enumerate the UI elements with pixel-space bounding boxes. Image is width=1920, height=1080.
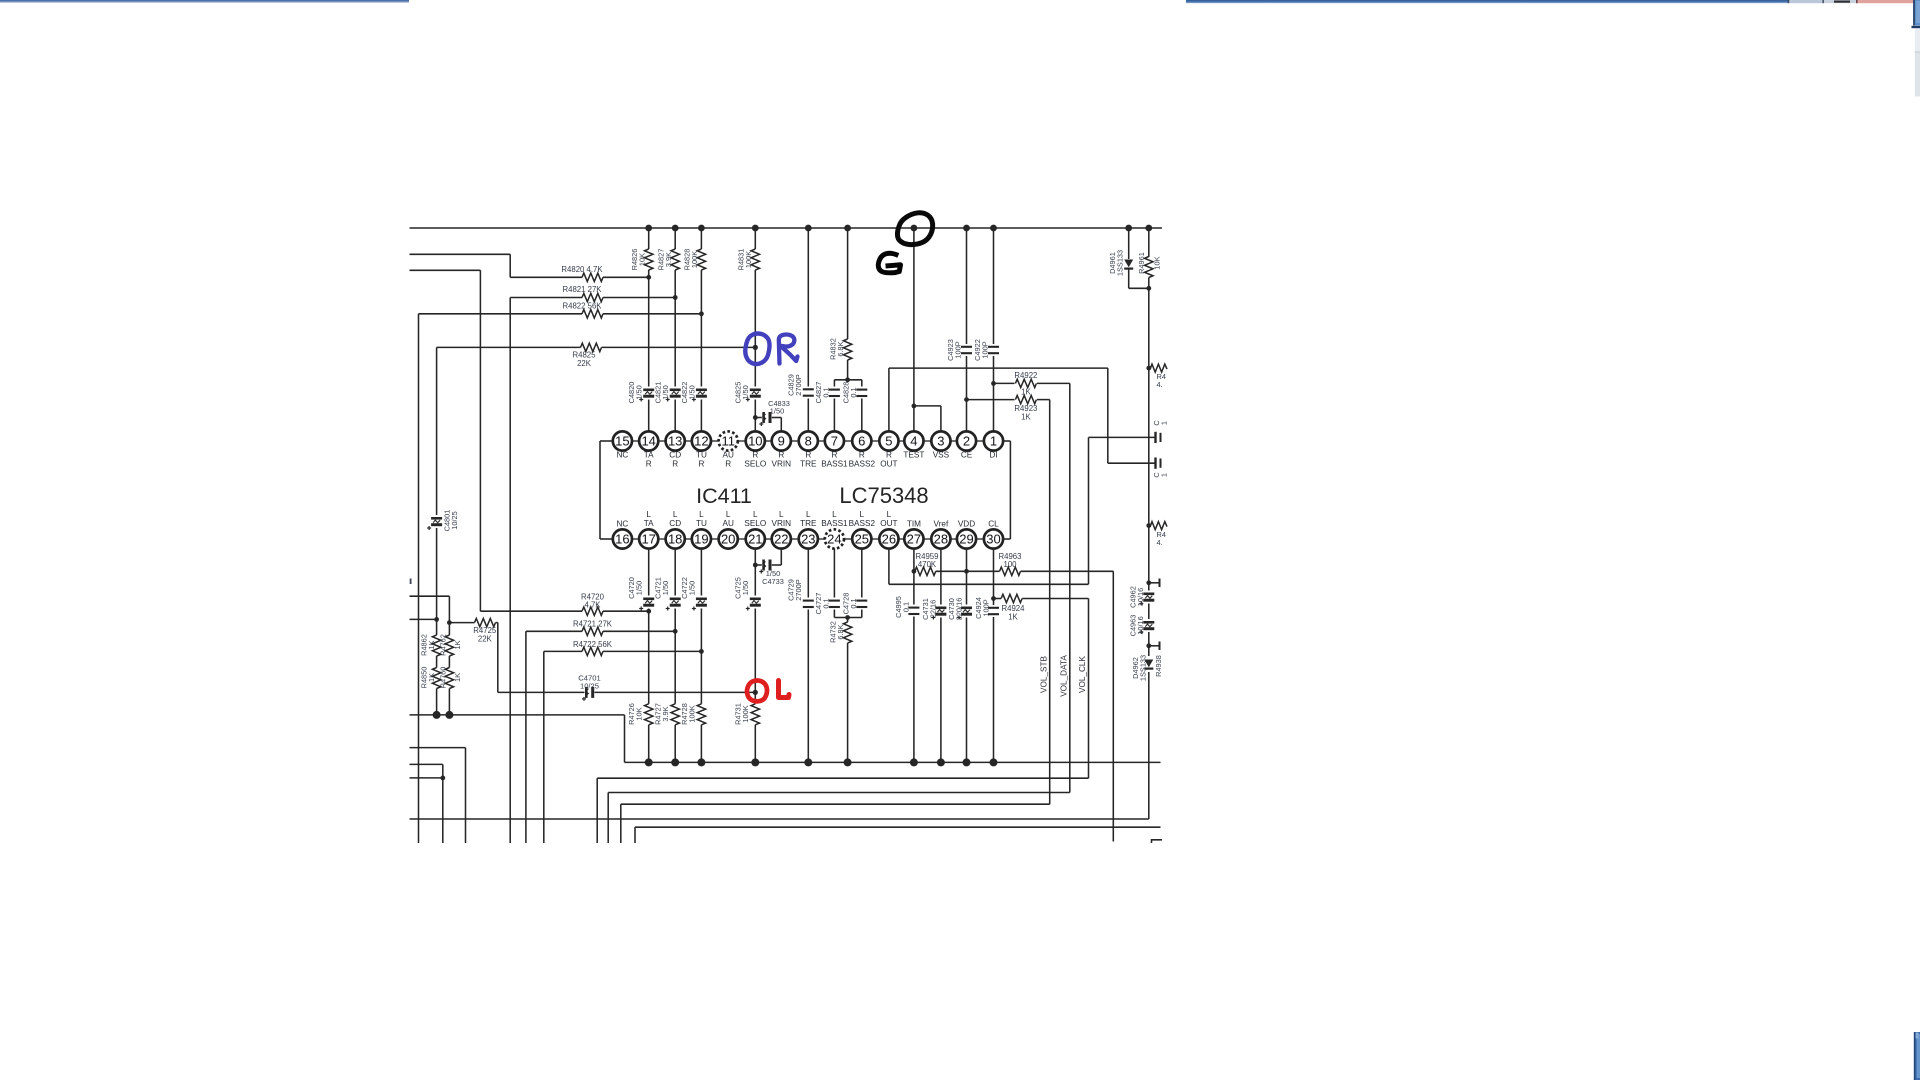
wire R OUT pin 5 to right edge capacitor <box>888 368 890 431</box>
svg-text:1K: 1K <box>427 640 436 649</box>
node junction R4820/C4820 line <box>646 275 651 280</box>
svg-text:10/25: 10/25 <box>450 511 459 530</box>
svg-text:6.8K: 6.8K <box>836 624 845 639</box>
svg-text:TEST: TEST <box>903 451 924 460</box>
svg-text:100: 100 <box>1003 560 1017 569</box>
svg-text:29: 29 <box>959 532 973 547</box>
svg-text:BASS1: BASS1 <box>821 519 848 528</box>
svg-text:Vref: Vref <box>934 520 949 529</box>
pin 30 CL <box>984 529 1003 548</box>
node junction ground bus x437 <box>433 711 441 719</box>
svg-text:R: R <box>725 460 731 469</box>
svg-text:DI: DI <box>989 451 997 460</box>
svg-text:1: 1 <box>1160 473 1169 477</box>
wire left input to R4720 column <box>410 269 481 271</box>
pin 28 Vref <box>931 529 950 548</box>
svg-text:CE: CE <box>961 451 973 460</box>
node junction ground bus x966 <box>963 758 971 766</box>
svg-text:R4762: R4762 <box>439 634 448 656</box>
svg-text:17: 17 <box>641 532 655 547</box>
capacitor C4822 1/50 <box>696 387 707 400</box>
node junction top bus x993 <box>990 225 997 232</box>
pin 12 TU R <box>692 431 711 450</box>
svg-text:2700P: 2700P <box>794 374 803 395</box>
svg-text:10/16: 10/16 <box>1136 588 1145 607</box>
window button maximize <box>1824 0 1857 3</box>
wire VOL_CLK drop <box>1088 599 1090 779</box>
svg-text:4.: 4. <box>1157 538 1163 547</box>
wire VOL_DATA staircase <box>607 793 609 844</box>
svg-text:VRIN: VRIN <box>772 519 792 528</box>
wire pin row connector top <box>632 440 639 442</box>
pin 21 L SELO <box>746 529 765 548</box>
svg-text:4.: 4. <box>1157 380 1163 389</box>
svg-text:3: 3 <box>937 434 944 449</box>
svg-text:VOL_CLK: VOL_CLK <box>1078 656 1087 693</box>
svg-text:1K: 1K <box>427 673 436 682</box>
pin 3 VSS <box>931 431 950 450</box>
node junction right rail C4962 tap <box>1146 580 1151 585</box>
pin 18 L CD <box>666 529 685 548</box>
svg-text:19: 19 <box>694 532 708 547</box>
svg-text:14: 14 <box>641 434 655 449</box>
pin 27 TIM <box>904 529 923 548</box>
svg-text:100P: 100P <box>981 341 990 358</box>
wire ground bus main segment <box>625 761 1161 763</box>
svg-text:R: R <box>805 451 811 460</box>
pin 10 R SELO <box>746 431 765 450</box>
capacitor C4924 100P <box>988 605 999 617</box>
svg-text:470K: 470K <box>918 560 937 569</box>
node junction top bus x755 <box>752 225 759 232</box>
node junction C4833 tap <box>753 415 758 420</box>
svg-text:R4961: R4961 <box>1137 252 1146 274</box>
node junction ground bus x808 <box>804 758 812 766</box>
diode D4961 1SS133 <box>1128 228 1130 259</box>
resistor R4850 1K <box>432 668 442 689</box>
node junction top bus x848 <box>844 225 851 232</box>
node junction right rail D4962 tap <box>1146 643 1151 648</box>
pin 16 NC <box>613 529 632 548</box>
svg-text:R: R <box>646 460 652 469</box>
wire IC package left side <box>600 440 613 442</box>
wire left input x443 tap <box>410 777 443 779</box>
svg-text:23: 23 <box>801 532 815 547</box>
wire VOL_CLK staircase <box>596 778 598 843</box>
svg-text:22K: 22K <box>577 359 592 368</box>
svg-text:1/50: 1/50 <box>661 581 670 595</box>
node junction ground bus x449 <box>445 711 453 719</box>
wire R4762 column <box>448 623 450 715</box>
svg-text:24: 24 <box>827 532 841 547</box>
wire bus to R4832 <box>847 228 849 380</box>
svg-text:L: L <box>699 510 704 519</box>
node junction R4720 tap <box>646 609 651 614</box>
svg-text:R: R <box>672 460 678 469</box>
svg-text:13: 13 <box>668 434 682 449</box>
resistor R4727 3.9K <box>670 704 680 725</box>
svg-text:TRE: TRE <box>800 519 817 528</box>
svg-text:TU: TU <box>696 519 707 528</box>
node junction ground bus x755 <box>751 758 759 766</box>
capacitor C4833 1/50 <box>755 417 762 419</box>
resistor R4760 1K <box>444 668 454 689</box>
node junction R4732/C4727/C4728 <box>845 615 850 620</box>
svg-text:L: L <box>832 510 837 519</box>
wire pin 23 column via C4729 <box>807 549 809 763</box>
svg-text:26: 26 <box>882 532 896 547</box>
pin 15 NC <box>613 431 632 450</box>
svg-text:10K: 10K <box>635 707 644 720</box>
node junction top bus x966 <box>963 225 970 232</box>
pin 13 CD R <box>666 431 685 450</box>
wire R4963 drop <box>1112 571 1114 841</box>
annotation black letter G <box>878 253 900 273</box>
node junction top bus x914 (circled) <box>911 225 918 232</box>
wire feed line x510 lower segment <box>509 298 511 844</box>
pin 14 TA R <box>639 431 658 450</box>
wire pin 21 SELO L column down <box>754 549 756 763</box>
capacitor C4827 0.1 <box>833 380 835 432</box>
annotation blue letter R <box>779 334 798 363</box>
wire C4801/R4862 column <box>436 347 438 715</box>
resistor R4762 1K <box>444 635 454 656</box>
svg-text:10K: 10K <box>1153 256 1162 269</box>
svg-text:1K: 1K <box>1008 613 1018 622</box>
node OR junction on SELO R line <box>753 345 758 350</box>
svg-text:IC411: IC411 <box>696 484 752 508</box>
svg-text:22: 22 <box>774 532 788 547</box>
wire ground bus left segment <box>410 714 625 716</box>
svg-text:6.8K: 6.8K <box>836 341 845 356</box>
capacitor C4828 0.1 <box>861 380 863 432</box>
svg-text:BASS1: BASS1 <box>821 460 848 469</box>
wire VOL_STB drop <box>1049 400 1051 805</box>
node junction CL/R4924 <box>991 596 996 601</box>
svg-text:TA: TA <box>644 451 654 460</box>
svg-text:5: 5 <box>885 434 892 449</box>
svg-text:TRE: TRE <box>800 460 817 469</box>
svg-text:10K: 10K <box>638 253 647 266</box>
node junction TEST to VSS <box>912 404 917 409</box>
svg-text:0.1: 0.1 <box>822 598 831 608</box>
node junction top bus x1129 <box>1125 225 1132 232</box>
capacitor C4727 0.1 <box>833 549 835 618</box>
pin 26 L OUT <box>879 529 898 548</box>
svg-text:4.7K: 4.7K <box>584 601 601 610</box>
svg-text:22/16: 22/16 <box>929 600 938 619</box>
wire bus to pin 1 DI via C4922 <box>993 228 995 432</box>
node junction x443 tap <box>440 776 445 781</box>
pin 1 DI <box>984 431 1003 450</box>
svg-text:AU: AU <box>723 519 734 528</box>
resistor R4726 10K <box>644 704 654 725</box>
label fragment left edge <box>410 579 412 585</box>
svg-text:15: 15 <box>615 434 629 449</box>
wire VOL_DATA drop <box>1069 383 1071 792</box>
svg-text:R4721 27K: R4721 27K <box>573 620 613 629</box>
pin 7 R BASS1 <box>825 431 844 450</box>
node junction ground bus x940 <box>937 758 945 766</box>
node junction top bus x649 <box>645 225 652 232</box>
svg-text:R4822 56K: R4822 56K <box>562 302 602 311</box>
capacitor C4701 10/25 <box>498 691 585 693</box>
wire pin 17 column down to bus <box>648 549 650 763</box>
node junction R4821/C4821 line <box>673 295 678 300</box>
pin 11 AU R <box>719 431 738 450</box>
svg-text:1SS133: 1SS133 <box>1139 655 1148 681</box>
wire feed x544 down <box>543 651 545 843</box>
resistor R4828 100K <box>696 249 706 270</box>
svg-text:R4821 27K: R4821 27K <box>562 285 602 294</box>
capacitor C4720 1/50 <box>643 596 654 609</box>
node junction R4832/C4827/C4828 <box>845 377 850 382</box>
svg-text:R: R <box>752 451 758 460</box>
resistor R4728 100K <box>696 704 706 725</box>
wire bottom right corner tick <box>1152 840 1163 843</box>
pin 22 L VRIN <box>772 529 791 548</box>
wire bus to pin 8 via C4829 <box>807 228 809 432</box>
svg-text:VSS: VSS <box>933 451 950 460</box>
resistor R4821 27K <box>510 297 582 299</box>
node junction ground bus x913 <box>910 758 918 766</box>
svg-text:OUT: OUT <box>880 460 897 469</box>
capacitor C4731 22/16 <box>935 605 946 618</box>
svg-text:0.1: 0.1 <box>902 602 911 612</box>
svg-text:1: 1 <box>990 434 997 449</box>
svg-text:27: 27 <box>907 532 921 547</box>
svg-text:NC: NC <box>616 520 628 529</box>
capacitor C4829 2700P <box>803 387 814 399</box>
svg-text:100K: 100K <box>741 705 750 722</box>
node junction TIM/R4959 <box>912 569 917 574</box>
svg-text:OUT: OUT <box>880 519 897 528</box>
node junction right rail R 4.7K upper <box>1146 366 1151 371</box>
svg-text:L: L <box>726 510 731 519</box>
capacitor C4821 1/50 <box>670 387 681 400</box>
wire pin 29 VDD column <box>966 549 968 763</box>
wire bus to pin 14 via C4820 <box>648 228 650 432</box>
scrollbar top button right edge <box>1915 0 1920 26</box>
resistor R4832 6.8K <box>843 339 853 360</box>
resistor R4720 4.7K <box>479 610 481 612</box>
resistor R4722 56K <box>544 650 582 652</box>
capacitor C4728 0.1 <box>861 549 863 618</box>
node junction right rail R 4.7K lower <box>1146 523 1151 528</box>
svg-text:4: 4 <box>910 434 917 449</box>
svg-text:100K: 100K <box>744 251 753 268</box>
svg-text:10: 10 <box>748 434 762 449</box>
window button close <box>1858 0 1918 3</box>
pin 8 R TRE <box>799 431 818 450</box>
svg-text:CL: CL <box>988 520 999 529</box>
svg-text:2: 2 <box>963 434 970 449</box>
svg-text:3.9K: 3.9K <box>664 252 673 267</box>
svg-text:TIM: TIM <box>907 520 921 529</box>
node junction R4722 tap <box>699 649 704 654</box>
wire C4827/C4828 tie bar <box>834 379 861 381</box>
wire IC package right side <box>1003 440 1011 442</box>
resistor R4831 100K <box>750 249 760 270</box>
capacitor C4722 1/50 <box>696 596 707 609</box>
wire feed line x418 <box>418 314 420 843</box>
capacitor C4725 1/50 <box>750 596 761 609</box>
svg-text:C4733: C4733 <box>762 577 784 586</box>
capacitor C4721 1/50 <box>670 596 681 609</box>
wire pin row connector bottom <box>632 538 639 540</box>
svg-text:NC: NC <box>616 451 628 460</box>
browser toolbar fragment top-right <box>1186 0 1788 3</box>
node junction C4801 line <box>434 617 439 622</box>
wire R4725 to C4701 <box>497 623 499 693</box>
capacitor C4995 0.1 <box>908 605 919 617</box>
node junction top bus x675 <box>672 225 679 232</box>
svg-text:LC75348: LC75348 <box>839 483 928 508</box>
resistor R4825 22K <box>437 346 581 348</box>
svg-text:L: L <box>779 510 784 519</box>
annotation red letter L <box>779 681 790 698</box>
scrollbar bottom button right edge <box>1915 1032 1920 1080</box>
svg-text:1K: 1K <box>453 640 462 649</box>
resistor R4923 1K <box>967 399 1015 401</box>
wire left input to R4725 jog <box>410 595 450 597</box>
wire C4833 to pin 9 <box>780 418 782 432</box>
svg-text:R4722 56K: R4722 56K <box>573 640 613 649</box>
annotation black circle around supply node <box>897 213 932 245</box>
capacitor C4801 10/25 <box>431 515 442 528</box>
window button minimize <box>1790 0 1823 3</box>
wire bus to pin 13 via C4821 <box>674 228 676 432</box>
svg-text:10/25: 10/25 <box>580 682 599 691</box>
wire pin 27 TIM column <box>913 549 915 763</box>
capacitor C4820 1/50 <box>643 387 654 400</box>
svg-text:L: L <box>753 510 758 519</box>
resistor R4721 27K <box>526 630 582 632</box>
wire lowest staircase to right edge <box>634 827 636 843</box>
pin 6 R BASS2 <box>852 431 871 450</box>
svg-text:1K: 1K <box>453 673 462 682</box>
svg-text:TA: TA <box>644 519 654 528</box>
node junction DI/R4922 <box>991 381 996 386</box>
svg-text:L: L <box>887 510 892 519</box>
svg-text:CD: CD <box>669 451 681 460</box>
capacitor C4962 10/16 <box>1143 591 1154 604</box>
svg-text:R4820 4.7K: R4820 4.7K <box>561 265 603 274</box>
svg-text:L: L <box>673 510 678 519</box>
wire VOL_STB staircase <box>620 804 622 843</box>
capacitor C4733 1/50 <box>753 563 758 568</box>
wire feed x526 down <box>525 631 527 843</box>
node junction ground bus x648 <box>645 758 653 766</box>
resistor R49xx 4.7K cut upper <box>1151 364 1167 372</box>
node junction ground bus x847 <box>844 758 852 766</box>
node junction D4961/R4961 <box>1146 286 1151 291</box>
svg-text:BASS2: BASS2 <box>849 519 876 528</box>
svg-text:R: R <box>778 451 784 460</box>
svg-text:25: 25 <box>855 532 869 547</box>
svg-text:11: 11 <box>721 434 735 449</box>
svg-text:0.1: 0.1 <box>822 387 831 397</box>
svg-text:TU: TU <box>696 451 707 460</box>
svg-text:1/50: 1/50 <box>635 581 644 595</box>
node junction CE/R4923 <box>964 397 969 402</box>
svg-text:R: R <box>698 460 704 469</box>
svg-text:20: 20 <box>721 532 735 547</box>
svg-text:R: R <box>886 451 892 460</box>
pin 24 L BASS1 <box>825 529 844 548</box>
svg-text:L: L <box>646 510 651 519</box>
pin 9 R VRIN <box>772 431 791 450</box>
pin 20 L AU <box>719 529 738 548</box>
annotation red O circling SELO L node <box>747 681 767 702</box>
wire TEST to VSS pin 3 <box>914 405 941 407</box>
svg-text:BASS2: BASS2 <box>849 460 876 469</box>
svg-text:1/50: 1/50 <box>741 385 750 399</box>
svg-text:1K: 1K <box>1021 413 1031 422</box>
svg-text:1K: 1K <box>1021 388 1031 397</box>
wire pin 19 column down to bus <box>700 549 702 763</box>
wire pin 30 CL column <box>993 549 995 763</box>
pin 4 TEST <box>904 431 923 450</box>
svg-text:L: L <box>860 510 865 519</box>
svg-text:12: 12 <box>694 434 708 449</box>
svg-text:220/16: 220/16 <box>955 598 964 621</box>
wire pin 28 Vref column <box>940 549 942 763</box>
wire TEST pin 4 riser <box>913 228 915 432</box>
wire C4727/C4728 tie bar <box>834 617 861 619</box>
scrollbar track right edge <box>1915 29 1920 53</box>
capacitor C4923 100P <box>961 344 972 356</box>
pin 5 R OUT <box>879 431 898 450</box>
capacitor C4730 220/16 <box>961 605 972 618</box>
svg-text:R4938: R4938 <box>1154 655 1163 677</box>
resistor R4725 22K <box>449 622 474 624</box>
svg-text:21: 21 <box>748 532 762 547</box>
svg-text:SELO: SELO <box>744 519 766 528</box>
wire bus to pin 10 via R4831 and C4825 <box>754 228 756 432</box>
svg-text:30: 30 <box>986 532 1000 547</box>
capacitor C4729 2700P <box>803 598 814 610</box>
capacitor C4825 1/50 <box>750 387 761 400</box>
capacitor C4963 10/16 <box>1143 619 1154 632</box>
svg-text:6: 6 <box>858 434 865 449</box>
svg-text:18: 18 <box>668 532 682 547</box>
annotation blue O circling SELO R node <box>745 334 769 364</box>
svg-text:100P: 100P <box>954 341 963 358</box>
wire long bottom bus to right rail <box>410 818 1149 820</box>
resistor R4826 10K <box>644 249 654 270</box>
node junction ground bus x701 <box>697 758 705 766</box>
node junction top bus x1149 <box>1145 225 1152 232</box>
pin 23 L TRE <box>799 529 818 548</box>
capacitor C4922 100P <box>988 344 999 356</box>
resistor R4827 3.9K <box>670 249 680 270</box>
node junction R4725/R4762 line <box>447 620 452 625</box>
wire bus to pin 2 CE via C4923 <box>966 228 968 432</box>
resistor R49xx 4.7K cut lower <box>1151 522 1167 530</box>
resistor R4731 100K <box>750 704 760 725</box>
svg-text:SELO: SELO <box>744 460 766 469</box>
pin 19 L TU <box>692 529 711 548</box>
node OL junction on SELO L line <box>753 690 758 695</box>
svg-text:1SS133: 1SS133 <box>1116 250 1125 276</box>
svg-text:1/50: 1/50 <box>687 385 696 399</box>
svg-text:22K: 22K <box>478 635 493 644</box>
svg-text:100P: 100P <box>982 599 991 616</box>
node junction VDD/R4963 <box>964 569 969 574</box>
svg-text:2700P: 2700P <box>794 579 803 600</box>
svg-text:100K: 100K <box>690 251 699 268</box>
